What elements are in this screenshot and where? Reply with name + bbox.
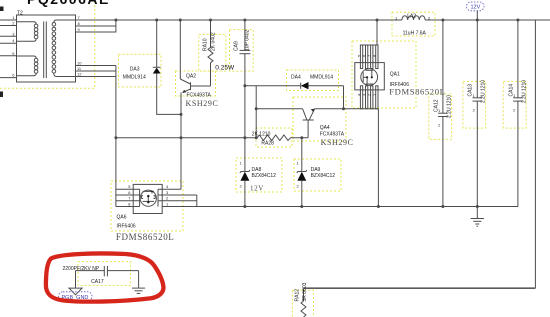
svg-text:11uH 7.6A: 11uH 7.6A	[403, 31, 427, 37]
svg-text:12: 12	[77, 72, 82, 77]
svg-text:KSH29C: KSH29C	[321, 138, 354, 147]
ground power left (open triangle)	[69, 288, 82, 295]
QA1 pin numbers	[357, 54, 377, 96]
QA6 left pin wires	[116, 188, 140, 190]
svg-text:2.2U 1210: 2.2U 1210	[446, 95, 452, 118]
ground earth bottom	[132, 287, 145, 289]
mosfet QA1 internals	[362, 72, 364, 82]
resistor RA10	[210, 20, 212, 48]
QA1 bottom pins	[360, 86, 362, 109]
capacitor CA14	[517, 20, 519, 98]
wire QA2 emitter down	[180, 93, 182, 190]
mosfet QA6 internals	[143, 190, 154, 192]
svg-text:FCX493TA: FCX493TA	[320, 131, 345, 137]
svg-text:FCX493TA: FCX493TA	[187, 93, 212, 99]
wire DA4 net	[245, 85, 301, 87]
svg-text:QA4: QA4	[320, 125, 330, 131]
wire QA4 collector row	[256, 108, 302, 110]
svg-text:BZX84C12: BZX84C12	[311, 173, 336, 179]
highlight box DA3	[119, 54, 162, 87]
transformer T2 body	[17, 15, 76, 82]
red annotation circle	[46, 253, 164, 301]
wire DA4 to gate row	[343, 86, 345, 109]
highlight box DA8	[236, 158, 282, 192]
wire CA17 right down	[138, 271, 140, 288]
highlight box DA4	[287, 70, 339, 91]
svg-text:FDMS86520L: FDMS86520L	[116, 232, 175, 242]
svg-text:BZX84C12: BZX84C12	[252, 173, 277, 179]
svg-text:RA10: RA10	[203, 38, 209, 51]
QA6 pin numbers	[128, 184, 169, 206]
svg-text:2200PF/2KV NP: 2200PF/2KV NP	[63, 266, 100, 272]
capacitor CA9	[244, 20, 246, 50]
transformer winding lower-left	[17, 56, 37, 58]
svg-text:DA3: DA3	[130, 67, 140, 73]
transistor QA2	[179, 20, 181, 79]
wire pin4	[0, 42, 17, 44]
transformer pin numbers right	[77, 15, 82, 77]
svg-text:CA17: CA17	[91, 279, 104, 285]
wire QA4 emitter row / QA1 gate	[315, 108, 379, 110]
net label PGB_GND	[59, 292, 93, 301]
cut-off mark left edge top	[0, 7, 4, 12]
resistor RA28	[257, 135, 290, 141]
wire mid vertical x256	[255, 86, 257, 138]
wire bottom rail	[304, 287, 536, 289]
svg-text:2.2U 1210: 2.2U 1210	[521, 80, 527, 103]
svg-text:MMDL914: MMDL914	[310, 75, 333, 81]
mosfet QA1 package	[355, 63, 385, 90]
svg-text:RA12: RA12	[295, 289, 301, 302]
wire pin3	[0, 35, 17, 37]
svg-text:0.25W: 0.25W	[215, 65, 235, 72]
highlight box RA28	[256, 128, 292, 147]
svg-text:QA6: QA6	[117, 214, 127, 220]
ground earth right	[471, 218, 484, 220]
transformer winding right	[54, 20, 76, 22]
capacitor CA17	[76, 270, 105, 272]
transformer winding upper-left	[17, 22, 37, 24]
highlight box QA2	[176, 71, 216, 96]
transformer core	[43, 22, 45, 79]
wire QA1 source down	[377, 109, 379, 207]
svg-text:DA4: DA4	[291, 75, 301, 81]
svg-text:3R 0603: 3R 0603	[302, 282, 308, 301]
highlight box QA6	[111, 181, 183, 231]
diode DA4	[300, 83, 302, 89]
mosfet QA6 package	[133, 184, 162, 213]
highlight box CA9	[230, 30, 254, 72]
wire pin5	[0, 55, 17, 57]
zener DA8	[240, 172, 249, 181]
highlight box QA4	[293, 97, 346, 141]
net label 12V top	[467, 2, 485, 11]
wire top 12V rail	[76, 19, 402, 21]
transistor QA4	[303, 119, 314, 121]
diode DA3	[153, 68, 161, 74]
svg-text:10P 0402: 10P 0402	[244, 29, 250, 51]
svg-text:QA2: QA2	[186, 74, 196, 80]
wire pin2	[0, 25, 17, 27]
svg-text:MMDL914: MMDL914	[123, 74, 146, 80]
svg-text:12V: 12V	[250, 185, 264, 193]
wire pin1	[0, 19, 17, 21]
cut-off mark left edge mid	[0, 92, 3, 98]
svg-text:LA2: LA2	[407, 14, 416, 20]
wire right drop	[534, 20, 536, 288]
svg-text:RA28: RA28	[261, 141, 274, 147]
svg-text:PQ2606AE: PQ2606AE	[27, 0, 110, 7]
svg-text:KSH29C: KSH29C	[186, 99, 219, 108]
wire pin6	[0, 77, 17, 79]
QA6 right pin wires	[158, 188, 181, 190]
wire pin8/9 bus riser	[115, 20, 117, 33]
wire ground rail	[162, 206, 518, 208]
highlight box transformer region	[0, 0, 95, 88]
svg-text:12V: 12V	[471, 5, 481, 11]
svg-text:2K 0402: 2K 0402	[211, 32, 217, 51]
wire RA28 row	[116, 137, 257, 139]
wire pin12	[76, 76, 116, 78]
svg-text:FDMS86520L: FDMS86520L	[389, 87, 445, 97]
transformer pin numbers left	[12, 15, 15, 78]
svg-text:QA1: QA1	[390, 72, 400, 78]
svg-text:T2: T2	[17, 11, 23, 17]
wire CA17 left down	[75, 271, 77, 289]
highlight box QA1	[352, 41, 416, 108]
svg-text:IRF6406: IRF6406	[117, 224, 136, 230]
inductor LA2	[402, 16, 425, 20]
wire DA3 branch lower	[157, 74, 181, 115]
highlight box CA13	[463, 81, 486, 128]
QA6 pin connector bars	[139, 189, 141, 206]
wire pin8	[76, 25, 116, 27]
QA1 top pins	[360, 45, 362, 69]
zener DA9	[301, 138, 303, 172]
wire DA3 branch upper	[156, 20, 158, 67]
resistor RA12	[303, 288, 305, 301]
wire QA1 drain riser	[376, 20, 378, 45]
svg-text:10: 10	[77, 61, 82, 66]
highlight box CA12	[429, 94, 452, 139]
wire pin10	[76, 65, 116, 67]
capacitor CA12	[442, 20, 444, 113]
svg-text:2.2U 1210: 2.2U 1210	[481, 80, 487, 103]
svg-text:CA9: CA9	[233, 41, 239, 51]
highlight box DA9	[294, 159, 341, 191]
highlight box CA17	[78, 262, 130, 286]
wire pin11	[76, 70, 116, 72]
highlight box RA10	[199, 34, 226, 71]
highlight box RA12	[292, 290, 313, 317]
highlight box CA14	[503, 81, 526, 128]
highlight box LA2	[392, 12, 435, 36]
capacitor CA13	[476, 11, 478, 98]
wire QA4 base down	[307, 120, 309, 138]
wire pin9	[76, 31, 116, 33]
svg-text:2K 1210: 2K 1210	[252, 132, 271, 138]
wire gate bus vertical	[115, 66, 117, 207]
